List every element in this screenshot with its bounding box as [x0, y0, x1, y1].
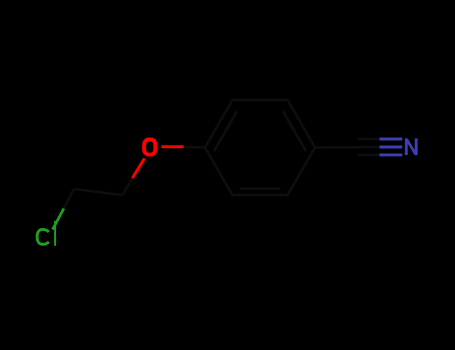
ring double bond inner line C3-C4	[284, 112, 306, 150]
atom O (red oxygen label glyph)	[144, 140, 155, 155]
wire O-C1 red half	[161, 145, 183, 148]
atom N : right vertical	[415, 138, 418, 155]
ring double bond inner line C1-C2	[215, 112, 237, 150]
atom N : diagonal	[407, 139, 417, 155]
ring double bond inner line C5-C6	[241, 187, 279, 190]
triple bond C#N blue halves	[380, 139, 403, 155]
wire O-C1 black half	[184, 146, 206, 149]
wire C4-C(nitrile)	[315, 146, 358, 149]
wire CH2b-Cl black half	[64, 189, 74, 209]
atom Cl : letter C	[37, 229, 49, 244]
wire CH2b-Cl green half	[53, 209, 64, 230]
wire CH2a-CH2b	[74, 189, 123, 195]
atom N : left vertical	[405, 138, 408, 155]
atom Cl : letter l	[54, 221, 56, 246]
triple bond C#N black halves	[358, 139, 380, 155]
benzene ring C1-C6	[205, 100, 315, 195]
wire O-CH2a black half	[123, 178, 133, 195]
wire O-CH2a red half	[132, 158, 144, 178]
